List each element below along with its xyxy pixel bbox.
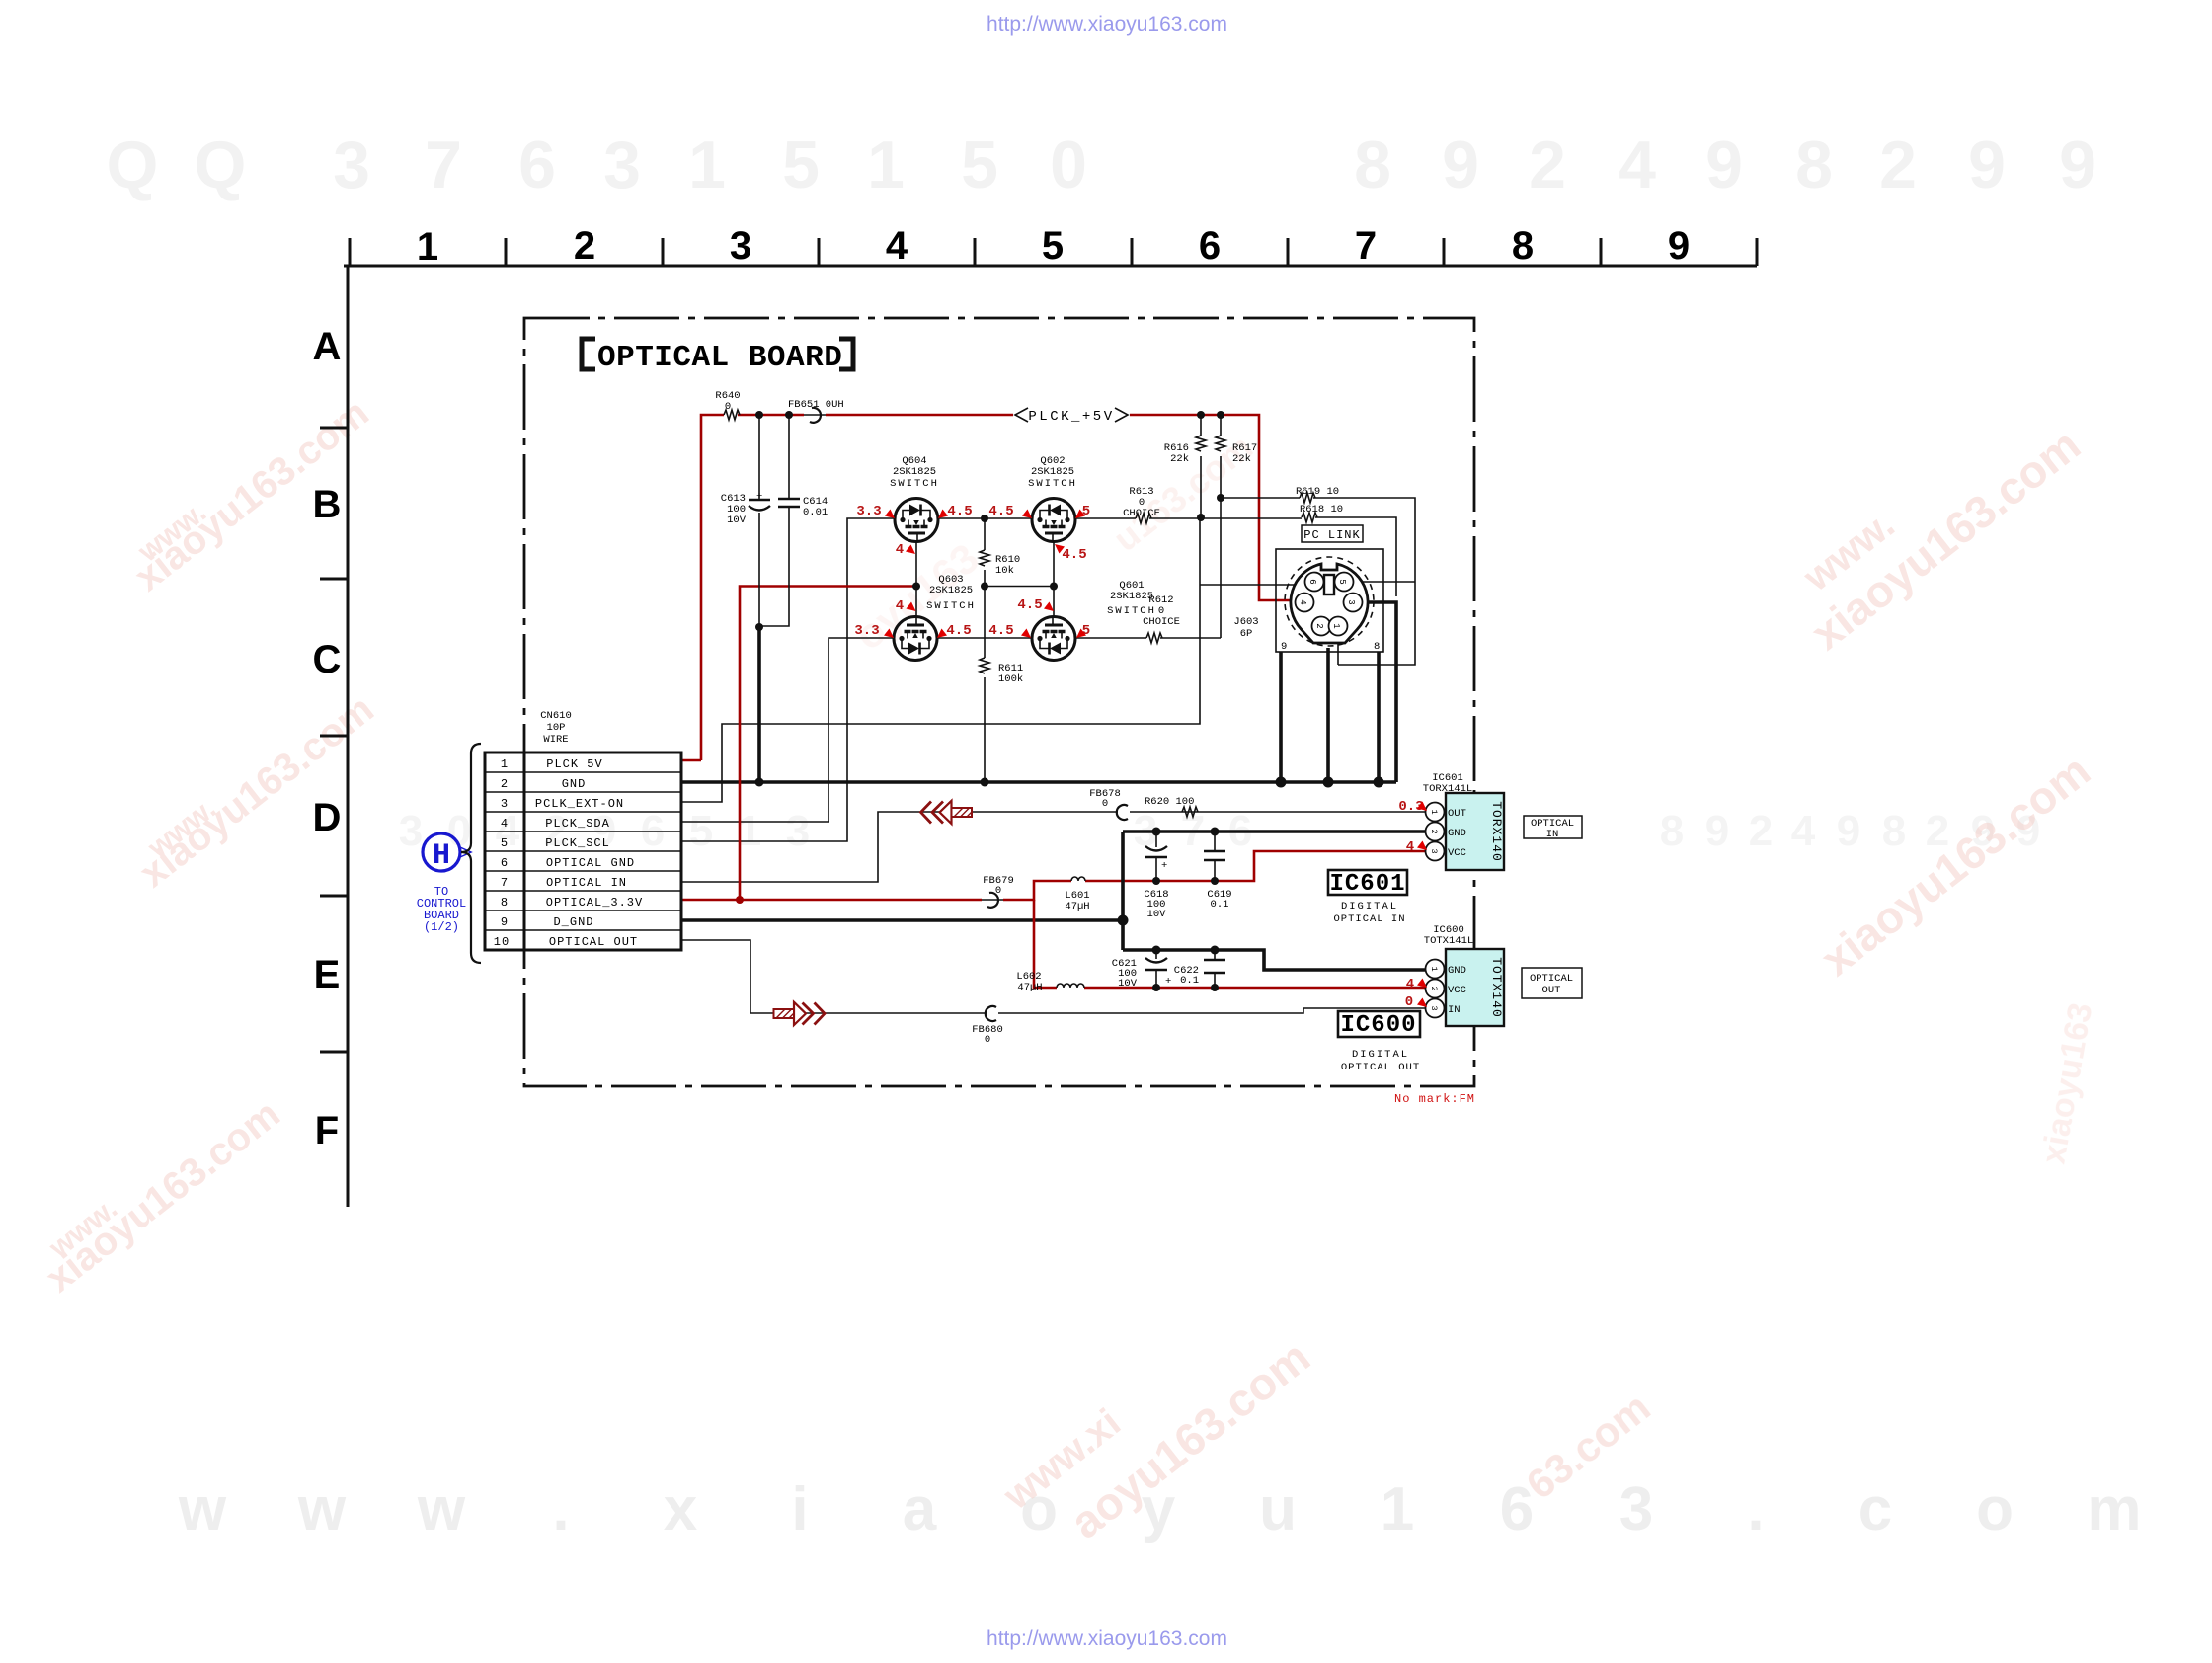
svg-text:3: 3 xyxy=(786,807,810,855)
svg-text:0.1: 0.1 xyxy=(1180,975,1199,987)
svg-text:+: + xyxy=(1165,976,1171,988)
svg-text:WIRE: WIRE xyxy=(543,734,568,746)
grid ruler left ticks xyxy=(320,428,348,1052)
svg-text:4: 4 xyxy=(896,542,904,558)
svg-text:H: H xyxy=(433,839,450,873)
junction dots black xyxy=(755,411,1384,991)
voltage label 4.5 Q601 left xyxy=(988,623,1031,639)
ferrite bead FB651 xyxy=(788,399,844,423)
svg-text:OUT: OUT xyxy=(1448,808,1466,820)
capacitor C621 xyxy=(1112,950,1172,990)
svg-text:0.01: 0.01 xyxy=(803,507,828,518)
wire CN610 row2 GND bus xyxy=(681,780,1396,784)
svg-text:OPTICAL IN: OPTICAL IN xyxy=(1333,913,1405,925)
watermark middle digits row xyxy=(399,807,2040,855)
svg-text:http://www.xiaoyu163.com: http://www.xiaoyu163.com xyxy=(987,1627,1227,1650)
svg-text:0: 0 xyxy=(1102,798,1108,810)
svg-text:DIGITAL: DIGITAL xyxy=(1341,901,1398,912)
svg-text:VCC: VCC xyxy=(1448,985,1466,996)
svg-text:2SK1825: 2SK1825 xyxy=(893,466,936,478)
watermark top digits row xyxy=(107,127,2096,202)
wire Q601 right to R612 to R617 xyxy=(1076,637,1221,639)
svg-text:10V: 10V xyxy=(1147,909,1167,920)
watermark top url xyxy=(987,13,1227,36)
label No mark:FM xyxy=(1394,1092,1475,1106)
svg-text:SWITCH: SWITCH xyxy=(890,478,939,490)
svg-text:x: x xyxy=(664,1475,698,1544)
svg-text:(1/2): (1/2) xyxy=(424,920,459,934)
svg-text:8: 8 xyxy=(1882,807,1906,855)
svg-text:4: 4 xyxy=(501,817,509,831)
svg-text:o: o xyxy=(1976,1475,2014,1544)
svg-text:OPTICAL GND: OPTICAL GND xyxy=(546,856,635,870)
svg-text:3: 3 xyxy=(399,807,423,855)
svg-text:3: 3 xyxy=(603,127,641,202)
voltage label 0.3 IC601 xyxy=(1398,799,1427,815)
wire Q604-Q602 drain segment xyxy=(938,517,1032,519)
connector J603 pin 6 xyxy=(1305,573,1324,592)
svg-text:22k: 22k xyxy=(1170,453,1189,465)
svg-text:c: c xyxy=(1858,1475,1892,1544)
wire PCLK_EXT-ON row3 to DIN pin6 xyxy=(681,517,1305,802)
brace for CN610 xyxy=(461,744,481,963)
svg-text:2: 2 xyxy=(1314,623,1324,628)
resistor R620 xyxy=(1145,796,1198,817)
wire PLCK_SDA row4 to Q603 source xyxy=(681,638,894,822)
svg-text:5: 5 xyxy=(1042,224,1064,268)
wire OPTICAL OUT row10 to IC600 xyxy=(681,940,1426,1013)
connector J603 pin 3 xyxy=(1344,594,1363,612)
svg-text:SWITCH: SWITCH xyxy=(1107,605,1156,617)
svg-text:5: 5 xyxy=(501,836,509,850)
resistor R617 xyxy=(1216,415,1257,638)
svg-text:2SK1825: 2SK1825 xyxy=(1031,466,1074,478)
svg-text:CN610: CN610 xyxy=(540,710,572,722)
arrow optical in left xyxy=(921,801,973,824)
svg-text:4: 4 xyxy=(1619,127,1656,202)
svg-text:5: 5 xyxy=(1082,504,1090,519)
svg-text:PCLK_EXT-ON: PCLK_EXT-ON xyxy=(535,797,624,811)
capacitor C613 xyxy=(721,415,770,627)
svg-text:.: . xyxy=(1747,1475,1764,1544)
svg-text:1: 1 xyxy=(501,757,509,771)
wire OPTICAL IN row7 to IC601 xyxy=(681,812,1426,882)
ferrite bead FB680 xyxy=(972,1006,1003,1046)
svg-text:.: . xyxy=(552,1475,569,1544)
svg-text:1: 1 xyxy=(738,807,761,855)
svg-text:FB651 0UH: FB651 0UH xyxy=(788,399,844,411)
svg-text:IN: IN xyxy=(1448,1004,1461,1016)
label R610 xyxy=(995,554,1020,577)
voltage label 4.5 Q602 gate xyxy=(1055,544,1087,563)
svg-text:u: u xyxy=(1259,1475,1297,1544)
connector J603 pin 5 xyxy=(1335,573,1354,592)
svg-text:9: 9 xyxy=(1442,127,1479,202)
connector J603 pin 4 xyxy=(1296,594,1314,612)
voltage label 3.3 Q604 xyxy=(856,504,895,519)
svg-text:SWITCH: SWITCH xyxy=(1028,478,1077,490)
svg-text:2: 2 xyxy=(1429,986,1439,990)
svg-text:VCC: VCC xyxy=(1448,847,1466,859)
voltage label 5 Q601 right xyxy=(1076,623,1090,639)
svg-text:GND: GND xyxy=(562,777,587,791)
svg-text:PLCK_+5V: PLCK_+5V xyxy=(1028,409,1114,425)
module IC601 pin circles xyxy=(1426,803,1445,861)
resistor R619 wire to DIN pin5 pin1 xyxy=(1221,486,1415,665)
grid ruler top ticks xyxy=(350,238,1757,266)
svg-text:9: 9 xyxy=(501,915,509,929)
svg-text:2: 2 xyxy=(1529,127,1566,202)
svg-text:TOTX141L: TOTX141L xyxy=(1424,935,1473,947)
svg-text:4: 4 xyxy=(1298,599,1307,604)
svg-text:2: 2 xyxy=(574,224,595,268)
svg-text:1: 1 xyxy=(867,127,905,202)
svg-text:OPTICAL: OPTICAL xyxy=(1530,973,1573,985)
svg-text:a: a xyxy=(903,1475,937,1544)
wire C613 C614 ground drop xyxy=(757,627,761,782)
resistor R640 xyxy=(715,390,740,420)
svg-text:Q: Q xyxy=(107,127,159,202)
svg-text:9: 9 xyxy=(1668,224,1690,268)
svg-text:6: 6 xyxy=(1307,579,1317,584)
svg-text:3: 3 xyxy=(333,127,370,202)
svg-text:8: 8 xyxy=(501,896,509,910)
transistor Q603 xyxy=(894,574,976,661)
connector CN610 table xyxy=(485,752,681,950)
resistor R612 xyxy=(1143,594,1180,643)
svg-text:PLCK_SDA: PLCK_SDA xyxy=(545,817,610,831)
inductor L601 xyxy=(1065,877,1089,912)
capacitor C622 xyxy=(1174,950,1225,988)
svg-text:4.5: 4.5 xyxy=(1017,597,1042,613)
wire DIN pin1 lead xyxy=(1337,636,1339,665)
svg-text:2SK1825: 2SK1825 xyxy=(929,585,973,596)
svg-text:PLCK_SCL: PLCK_SCL xyxy=(545,836,610,850)
svg-text:6: 6 xyxy=(501,856,509,870)
svg-text:w: w xyxy=(417,1475,466,1544)
transistor Q602 xyxy=(1028,455,1077,543)
flag H to control board xyxy=(417,833,471,934)
label R611 xyxy=(998,663,1023,685)
svg-text:9: 9 xyxy=(1968,127,2006,202)
svg-text:4.5: 4.5 xyxy=(988,504,1013,519)
svg-text:TORX141L: TORX141L xyxy=(1423,783,1472,795)
module IC600 pin circles xyxy=(1426,960,1445,1018)
svg-text:PLCK 5V: PLCK 5V xyxy=(546,757,602,771)
svg-text:+: + xyxy=(756,491,762,503)
voltage label 4.5 Q604 right xyxy=(938,504,973,519)
svg-text:PC LINK: PC LINK xyxy=(1303,528,1360,542)
svg-text:E: E xyxy=(314,953,341,996)
svg-text:9: 9 xyxy=(1837,807,1860,855)
svg-text:DIGITAL: DIGITAL xyxy=(1352,1049,1409,1061)
resistor R610 vertical with R611 chain xyxy=(980,518,989,782)
svg-text:C: C xyxy=(313,638,342,681)
voltage label 5 Q602 right xyxy=(1075,504,1090,519)
grid ruler top line xyxy=(344,265,1757,268)
svg-text:+: + xyxy=(1161,860,1167,872)
svg-text:47µH: 47µH xyxy=(1065,901,1089,912)
svg-text:4: 4 xyxy=(1406,977,1414,992)
voltage label 4 Q603 gate xyxy=(896,598,916,614)
svg-text:GND: GND xyxy=(1448,828,1466,839)
voltage label 3.3 Q603 xyxy=(854,623,894,639)
watermark bottom big text xyxy=(178,1475,2142,1544)
svg-text:47µH: 47µH xyxy=(1017,982,1042,993)
svg-text:IC601: IC601 xyxy=(1329,871,1405,898)
capacitor C614 xyxy=(759,415,828,626)
wire DIN pin3 thick ground xyxy=(1363,602,1396,782)
svg-text:10P: 10P xyxy=(547,722,566,734)
svg-text:0: 0 xyxy=(985,1034,990,1046)
svg-text:A: A xyxy=(313,325,342,368)
svg-text:3: 3 xyxy=(730,224,751,268)
svg-text:6P: 6P xyxy=(1240,628,1253,640)
voltage label 4 IC600 vcc xyxy=(1406,977,1427,992)
connector J603 mini-DIN shield xyxy=(1285,557,1374,646)
svg-text:IC600: IC600 xyxy=(1340,1012,1416,1039)
svg-text:R618 10: R618 10 xyxy=(1300,504,1343,515)
svg-text:10k: 10k xyxy=(995,565,1014,577)
wire CN610 row9 D_GND bus xyxy=(681,918,1123,922)
svg-text:6: 6 xyxy=(518,127,556,202)
svg-text:3.3: 3.3 xyxy=(856,504,881,519)
svg-text:D_GND: D_GND xyxy=(553,915,593,929)
svg-text:OPTICAL_3.3V: OPTICAL_3.3V xyxy=(546,896,643,910)
svg-text:9: 9 xyxy=(2059,127,2096,202)
svg-text:J603: J603 xyxy=(1233,616,1258,628)
svg-text:1: 1 xyxy=(688,127,726,202)
svg-text:5: 5 xyxy=(689,807,713,855)
wire PLCK 5V to CN610 pin1 xyxy=(681,759,701,762)
wire gate link Q602-Q601 xyxy=(985,542,1054,617)
transistor Q604 xyxy=(890,455,939,543)
svg-text:B: B xyxy=(313,483,342,526)
watermark bottom url xyxy=(987,1627,1227,1650)
svg-text:CHOICE: CHOICE xyxy=(1123,508,1160,519)
module IC600 TOTX140 xyxy=(1446,949,1504,1026)
svg-text:TOTX140: TOTX140 xyxy=(1489,957,1504,1018)
svg-text:5: 5 xyxy=(782,127,820,202)
svg-text:w: w xyxy=(178,1475,227,1544)
resistor R616 xyxy=(1164,415,1206,517)
voltage label 4.5 Q601 gate xyxy=(1017,597,1054,613)
wire IC601 gnd vcc verticals xyxy=(1123,831,1426,970)
label IC601 TORX141L xyxy=(1423,772,1472,795)
svg-text:2: 2 xyxy=(501,777,509,791)
svg-text:3: 3 xyxy=(1429,1005,1439,1010)
optical board dash-dot border xyxy=(524,318,1474,1086)
svg-text:GND: GND xyxy=(1448,965,1466,977)
svg-text:9: 9 xyxy=(1705,127,1743,202)
voltage label 4.5 Q603 right xyxy=(937,623,972,639)
svg-text:No mark:FM: No mark:FM xyxy=(1394,1092,1475,1106)
svg-text:R619 10: R619 10 xyxy=(1296,486,1339,498)
grid ruler left line xyxy=(347,266,350,1207)
svg-text:7: 7 xyxy=(501,876,509,890)
svg-text:http://www.xiaoyu163.com: http://www.xiaoyu163.com xyxy=(987,13,1227,36)
svg-text:4: 4 xyxy=(1406,839,1414,855)
svg-text:8: 8 xyxy=(1354,127,1391,202)
svg-text:5: 5 xyxy=(961,127,998,202)
svg-text:4: 4 xyxy=(886,224,908,268)
svg-text:1: 1 xyxy=(1331,623,1341,628)
svg-text:OPTICAL OUT: OPTICAL OUT xyxy=(1341,1062,1420,1073)
svg-text:R620 100: R620 100 xyxy=(1145,796,1194,808)
svg-text:10V: 10V xyxy=(1118,978,1138,990)
ferrite bead FB678 xyxy=(1089,788,1128,820)
watermark pink rotated stamps xyxy=(38,391,2099,1548)
label IC600 TOTX141L xyxy=(1424,924,1473,947)
capacitor C618 xyxy=(1144,831,1168,920)
label OPTICAL OUT box xyxy=(1522,968,1582,998)
svg-text:CHOICE: CHOICE xyxy=(1143,616,1180,628)
svg-text:OPTICAL BOARD: OPTICAL BOARD xyxy=(597,341,842,375)
svg-text:5: 5 xyxy=(1082,623,1090,639)
label IC601 block xyxy=(1328,870,1407,925)
svg-text:SWITCH: SWITCH xyxy=(926,600,976,612)
title OPTICAL BOARD xyxy=(582,339,853,375)
label OPTICAL IN box xyxy=(1524,816,1582,840)
svg-text:0: 0 xyxy=(1405,994,1413,1010)
net label PLCK_+5V xyxy=(1015,408,1128,425)
svg-text:m: m xyxy=(2087,1475,2141,1544)
svg-text:8: 8 xyxy=(1795,127,1833,202)
voltage label 4 IC601 vcc xyxy=(1406,839,1427,855)
svg-text:i: i xyxy=(791,1475,808,1544)
svg-text:1: 1 xyxy=(1381,1475,1414,1544)
grid ruler row letters xyxy=(313,325,342,1152)
svg-text:0: 0 xyxy=(1050,127,1087,202)
svg-text:F: F xyxy=(315,1109,339,1152)
voltage label 0 IC600 in xyxy=(1405,994,1427,1010)
svg-text:22k: 22k xyxy=(1232,453,1251,465)
svg-text:2: 2 xyxy=(1429,829,1439,833)
svg-text:10V: 10V xyxy=(727,515,747,526)
wire Q602 right to R613 R618 to DIN pin3 xyxy=(1075,517,1396,596)
svg-text:1: 1 xyxy=(417,225,438,269)
svg-text:4.5: 4.5 xyxy=(946,623,971,639)
svg-text:3.3: 3.3 xyxy=(854,623,879,639)
connector J603 pin 1 xyxy=(1329,617,1348,636)
connector J603 outer box xyxy=(1233,549,1383,653)
svg-text:9: 9 xyxy=(1281,641,1287,653)
wire PLCK_+5V red bus xyxy=(701,415,1296,760)
svg-text:3: 3 xyxy=(1619,1475,1653,1544)
wire DIN pin9 shield pin8 grounds xyxy=(1281,648,1379,782)
resistor R618 xyxy=(1300,504,1343,522)
label CN610 xyxy=(540,710,572,746)
grid ruler column numbers xyxy=(417,224,1690,269)
svg-text:4.5: 4.5 xyxy=(1062,547,1086,563)
svg-text:3: 3 xyxy=(501,797,509,811)
svg-text:2: 2 xyxy=(1749,807,1773,855)
svg-text:w: w xyxy=(297,1475,347,1544)
label IC600 block xyxy=(1338,1011,1420,1073)
svg-text:Q: Q xyxy=(195,127,247,202)
svg-text:D: D xyxy=(313,796,342,839)
svg-text:3: 3 xyxy=(1429,848,1439,853)
ferrite bead FB679 xyxy=(982,875,1014,908)
svg-text:8: 8 xyxy=(1660,807,1684,855)
voltage label 4.5 Q602 left xyxy=(988,504,1032,519)
wire gate link Q604-Q603 xyxy=(915,542,917,616)
svg-text:7: 7 xyxy=(425,127,462,202)
wire OPTICAL_3.3V red row8 xyxy=(681,851,1426,900)
wire red branch to L602 VCC xyxy=(1034,900,1426,988)
transistor Q601 xyxy=(1032,580,1156,661)
svg-text:5: 5 xyxy=(1337,579,1347,584)
svg-text:100k: 100k xyxy=(998,673,1023,685)
svg-text:8: 8 xyxy=(1374,641,1380,653)
svg-text:4.5: 4.5 xyxy=(947,504,972,519)
svg-text:9: 9 xyxy=(1705,807,1729,855)
arrow optical out right xyxy=(774,1002,826,1025)
svg-text:1: 1 xyxy=(1429,809,1439,814)
inductor L602 xyxy=(1016,971,1084,993)
svg-text:0.1: 0.1 xyxy=(1211,899,1229,911)
module IC601 TORX140 xyxy=(1446,793,1504,870)
svg-text:2: 2 xyxy=(1879,127,1917,202)
svg-text:OPTICAL IN: OPTICAL IN xyxy=(546,876,627,890)
wire red 3.3V to gates xyxy=(740,587,916,901)
voltage label 4 Q604 gate xyxy=(896,542,915,558)
junction dots red xyxy=(736,896,744,904)
svg-text:2SK1825: 2SK1825 xyxy=(1110,591,1153,602)
svg-text:0: 0 xyxy=(995,885,1001,897)
wire PLCK_SCL row5 to Q604 source xyxy=(681,518,895,841)
connector J603 pin 2 xyxy=(1312,617,1331,636)
svg-text:4.5: 4.5 xyxy=(988,623,1013,639)
svg-text:0: 0 xyxy=(725,401,731,413)
svg-text:OPTICAL OUT: OPTICAL OUT xyxy=(549,935,638,949)
capacitor C619 xyxy=(1204,831,1232,911)
label PC LINK xyxy=(1302,525,1363,542)
svg-text:4: 4 xyxy=(896,598,904,614)
wire Q603-Q601 segment xyxy=(937,637,1031,639)
svg-text:4: 4 xyxy=(1791,807,1816,855)
svg-text:10: 10 xyxy=(494,935,510,949)
svg-text:OUT: OUT xyxy=(1542,985,1561,996)
resistor R613 xyxy=(1123,486,1160,523)
svg-text:3: 3 xyxy=(1346,599,1356,604)
svg-text:TORX140: TORX140 xyxy=(1489,801,1504,862)
svg-text:6: 6 xyxy=(1199,224,1221,268)
svg-text:1: 1 xyxy=(1429,966,1439,971)
svg-text:8: 8 xyxy=(1512,224,1534,268)
svg-text:7: 7 xyxy=(1355,224,1377,268)
svg-text:IN: IN xyxy=(1546,829,1559,840)
